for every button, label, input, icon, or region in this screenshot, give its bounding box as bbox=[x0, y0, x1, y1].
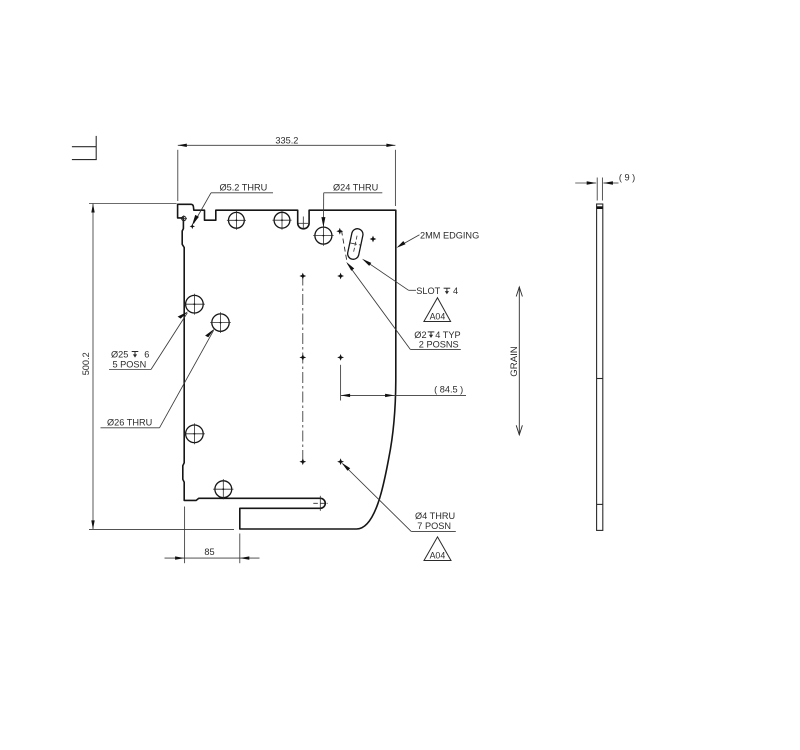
hole D25 left lower bbox=[184, 423, 205, 444]
svg-text:Ø4 THRU: Ø4 THRU bbox=[415, 511, 455, 521]
svg-text:( 84.5 ): ( 84.5 ) bbox=[434, 385, 463, 395]
svg-text:500.2: 500.2 bbox=[81, 352, 91, 375]
svg-text:Ø26 THRU: Ø26 THRU bbox=[107, 418, 152, 428]
view break mark top-left bbox=[72, 136, 97, 160]
position star B bbox=[370, 236, 377, 243]
hole top row 2 bbox=[273, 211, 292, 230]
dimension (9) side view bbox=[575, 178, 618, 201]
svg-text:4 TYP: 4 TYP bbox=[435, 330, 460, 340]
dimension 85 bbox=[165, 507, 260, 564]
dimension (84.5) bbox=[341, 365, 466, 401]
dimension 335.2 bbox=[178, 145, 396, 206]
svg-text:A04: A04 bbox=[430, 550, 446, 560]
U-notch centerline cross bbox=[298, 217, 308, 229]
position star F bbox=[337, 354, 344, 361]
svg-text:Ø25: Ø25 bbox=[111, 350, 128, 360]
centre chain line bbox=[302, 275, 304, 464]
hole D26 bbox=[210, 312, 231, 333]
svg-text:2MM EDGING: 2MM EDGING bbox=[420, 231, 479, 241]
svg-text:SLOT: SLOT bbox=[416, 286, 440, 296]
svg-text:335.2: 335.2 bbox=[275, 136, 298, 146]
svg-text:( 9 ): ( 9 ) bbox=[619, 172, 635, 182]
position star C bbox=[299, 273, 306, 280]
position star D bbox=[337, 273, 344, 280]
svg-text:85: 85 bbox=[204, 547, 214, 557]
svg-text:A04: A04 bbox=[430, 312, 446, 322]
svg-text:6: 6 bbox=[144, 350, 149, 360]
position star H bbox=[337, 458, 344, 465]
svg-text:2 POSNS: 2 POSNS bbox=[419, 340, 459, 350]
svg-text:4: 4 bbox=[453, 286, 458, 296]
hole D25 left upper bbox=[184, 294, 205, 315]
svg-text:5 POSN: 5 POSN bbox=[113, 360, 147, 370]
hole D25 bottom bbox=[213, 479, 233, 499]
triangle A04 lower bbox=[424, 537, 451, 561]
position star A bbox=[336, 228, 343, 235]
position star G bbox=[299, 458, 306, 465]
hole D24 bbox=[313, 225, 333, 245]
svg-text:Ø2: Ø2 bbox=[414, 330, 426, 340]
D5.2 hole bbox=[182, 216, 186, 220]
svg-text:7 POSN: 7 POSN bbox=[417, 521, 451, 531]
triangle A04 upper bbox=[424, 298, 451, 322]
position star E bbox=[299, 354, 306, 361]
D5.2 position star bbox=[190, 224, 195, 229]
dimension 500.2 bbox=[89, 204, 234, 530]
slot ghost dashed line bbox=[342, 231, 347, 261]
part outline (front view) bbox=[178, 204, 396, 529]
svg-text:Ø5.2 THRU: Ø5.2 THRU bbox=[220, 183, 268, 193]
grain direction arrow bbox=[516, 287, 522, 435]
slot end cross bbox=[313, 496, 327, 511]
hole top row 1 bbox=[227, 211, 246, 230]
slot (angled capsule) bbox=[347, 228, 364, 261]
svg-text:Ø24 THRU: Ø24 THRU bbox=[333, 183, 378, 193]
side view plate bbox=[597, 204, 603, 530]
svg-text:GRAIN: GRAIN bbox=[509, 346, 520, 376]
